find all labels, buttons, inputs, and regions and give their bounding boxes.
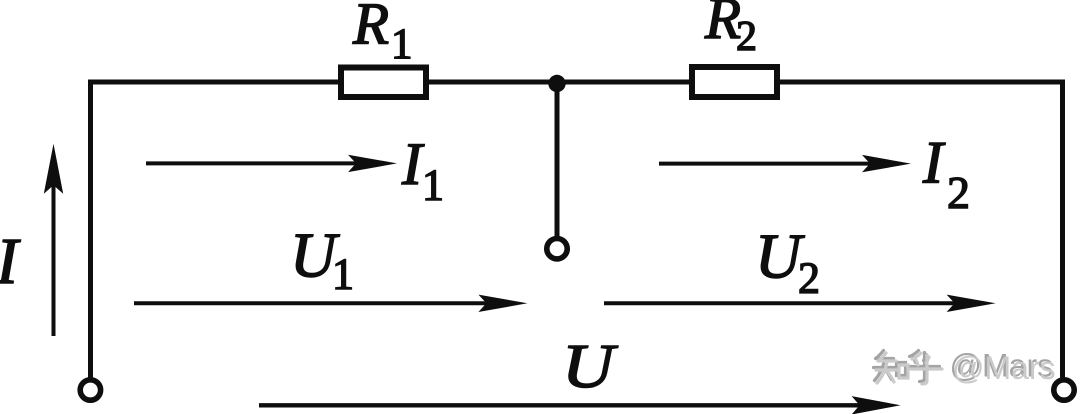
svg-text:2: 2	[736, 14, 757, 60]
terminal bottom-right	[1054, 380, 1074, 400]
wire left vertical	[88, 80, 93, 378]
terminal bottom-left	[80, 380, 100, 400]
svg-text:1: 1	[391, 21, 413, 68]
wire middle vertical	[555, 82, 560, 236]
arrow U1	[134, 301, 487, 305]
arrow U2	[604, 301, 955, 305]
svg-text:2: 2	[947, 167, 970, 218]
svg-text:I: I	[0, 225, 21, 298]
svg-text:R: R	[352, 0, 389, 57]
svg-text:1: 1	[332, 250, 354, 299]
svg-text:1: 1	[422, 161, 444, 210]
svg-text:U: U	[562, 333, 619, 401]
wire right vertical	[1060, 80, 1065, 378]
svg-text:I: I	[922, 130, 946, 196]
svg-text:2: 2	[798, 254, 820, 303]
svg-text:@Mars: @Mars	[952, 350, 1056, 386]
watermark zhihu logo text	[874, 348, 1056, 387]
resistor R1	[341, 68, 426, 98]
arrow I1	[146, 161, 356, 165]
terminal middle	[547, 239, 567, 259]
arrow I vertical	[52, 185, 56, 336]
arrow I2	[659, 162, 870, 166]
node junction dot	[548, 75, 565, 92]
wire top horizontal	[88, 80, 1062, 85]
resistor R2	[692, 67, 777, 97]
arrow U bottom	[259, 403, 860, 407]
